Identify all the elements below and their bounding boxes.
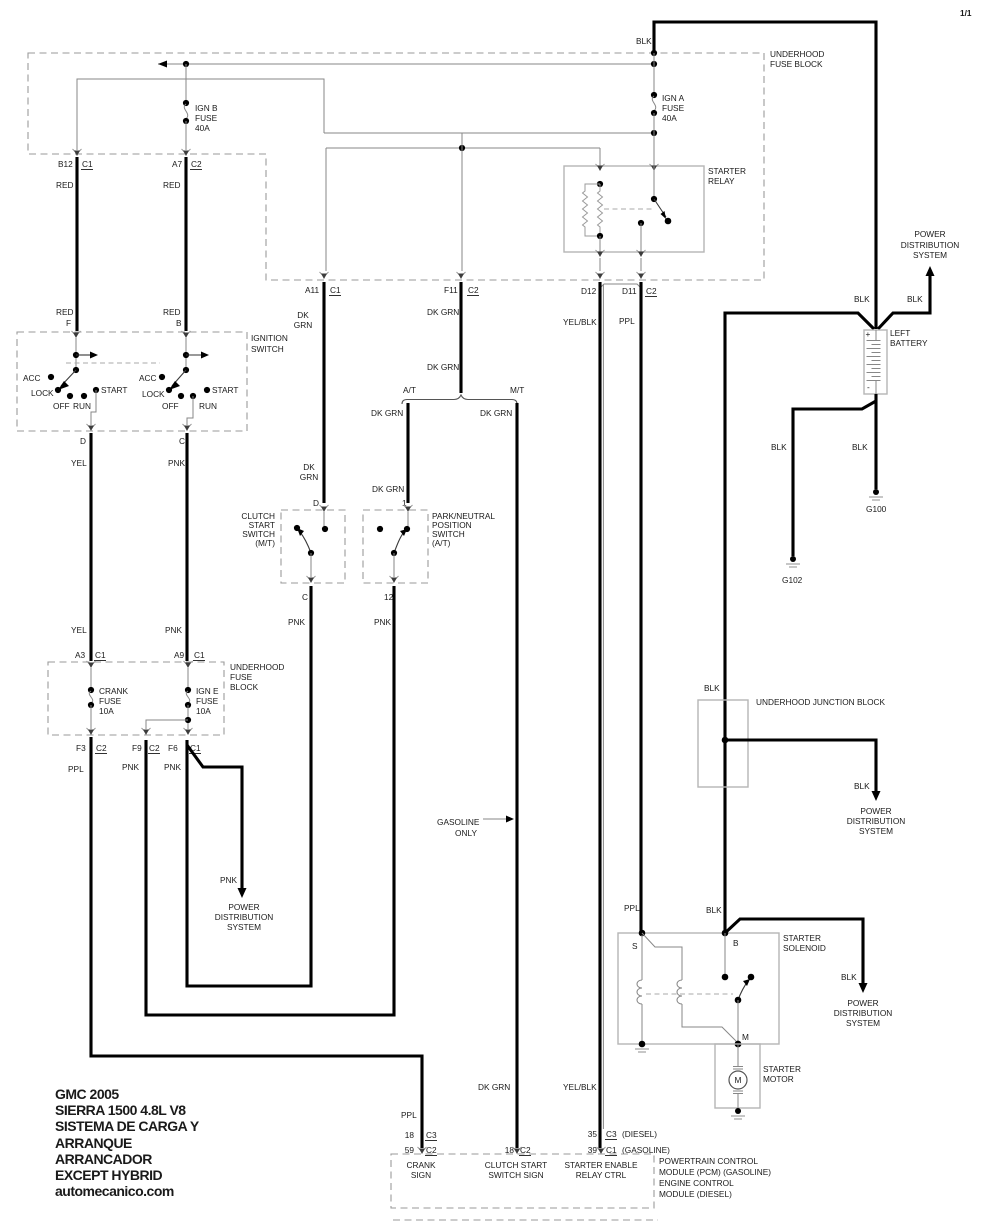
wire A11/relay feeder bus xyxy=(326,147,600,149)
svg-text:START: START xyxy=(101,385,127,395)
underhood fuse block lower label xyxy=(230,662,284,692)
ignition switch half 2 contacts xyxy=(139,373,238,411)
wire BLK junction-block riser to battery xyxy=(725,294,874,933)
svg-text:SYSTEM: SYSTEM xyxy=(846,1018,880,1028)
svg-text:S: S xyxy=(632,941,638,951)
underhood fuse block (lower) dashed box xyxy=(48,662,224,735)
terminal B12 C1 xyxy=(58,159,93,170)
relay switch common xyxy=(651,166,657,202)
svg-text:C2: C2 xyxy=(646,286,657,296)
wire DK GRN M/T branch to PCM xyxy=(480,403,517,1148)
svg-text:PNK: PNK xyxy=(164,762,182,772)
svg-text:RED: RED xyxy=(56,307,74,317)
wire bridge to B12 xyxy=(77,79,324,150)
svg-text:SYSTEM: SYSTEM xyxy=(859,826,893,836)
connector entry mark at 186,156 xyxy=(182,149,191,156)
svg-text:C1: C1 xyxy=(82,159,93,169)
wires relay to fuse block edge xyxy=(600,258,641,271)
svg-text:PPL: PPL xyxy=(624,903,640,913)
svg-text:PPL: PPL xyxy=(619,316,635,326)
ground solenoid case xyxy=(635,1041,649,1052)
fuse IGN A 40A xyxy=(651,92,685,123)
terminal A9 C1 xyxy=(174,650,205,661)
node F11 tap xyxy=(459,145,465,151)
starter motor box xyxy=(715,1044,760,1108)
wire A11 feed xyxy=(325,148,327,271)
terminal F3 C2 xyxy=(76,743,107,754)
wire BLK battery feed (top right) xyxy=(636,22,876,329)
connector entry mark at 324,512 xyxy=(320,505,329,512)
wire BLK battery negative to G102 xyxy=(771,401,876,556)
svg-text:B: B xyxy=(176,318,182,328)
svg-text:C: C xyxy=(302,592,308,602)
svg-text:RUN: RUN xyxy=(73,401,91,411)
connector entry mark at 641,257 xyxy=(637,250,646,257)
svg-text:ONLY: ONLY xyxy=(455,828,477,838)
svg-text:D12: D12 xyxy=(581,286,597,296)
svg-text:SOLENOID: SOLENOID xyxy=(783,943,826,953)
starter motor label xyxy=(763,1064,801,1084)
svg-text:YEL: YEL xyxy=(71,458,87,468)
fuse IGN E 10A xyxy=(185,668,219,729)
ignition switch label xyxy=(251,333,288,354)
svg-text:DK GRN: DK GRN xyxy=(478,1082,510,1092)
svg-text:G100: G100 xyxy=(866,504,887,514)
ignition switch half 2 output to C xyxy=(187,396,193,425)
wire PPL F3 to PCM crank sign xyxy=(91,737,422,1148)
svg-text:C1: C1 xyxy=(194,650,205,660)
ignition switch mechanical link xyxy=(66,362,160,364)
terminal 18 C3 / 59 C2 (crank sign) xyxy=(405,1130,437,1156)
svg-text:START: START xyxy=(212,385,238,395)
svg-text:YEL: YEL xyxy=(71,625,87,635)
connector entry mark at 188,668 xyxy=(184,661,193,668)
node junction block tap xyxy=(722,737,729,744)
wire PNK park/neutral 12 to F9 xyxy=(146,586,394,1015)
connector entry mark at 461,279 xyxy=(457,272,466,279)
svg-text:PPL: PPL xyxy=(401,1110,417,1120)
wire IGN B fuse to A7 xyxy=(185,121,187,150)
terminal A3 C1 xyxy=(75,650,106,661)
terminal 18 C2 (clutch start switch sign) xyxy=(505,1145,531,1156)
connector entry mark at 600,257 xyxy=(596,250,605,257)
svg-text:10A: 10A xyxy=(99,706,114,716)
terminal F11 C2 xyxy=(444,285,479,296)
wire IGN A feed xyxy=(653,53,655,94)
svg-text:IGN E: IGN E xyxy=(196,686,219,696)
clutch start switch dashed box xyxy=(281,510,345,583)
svg-text:SYSTEM: SYSTEM xyxy=(913,250,947,260)
svg-text:F3: F3 xyxy=(76,743,86,753)
connector entry mark at 311,583 xyxy=(307,576,316,583)
svg-text:FUSE BLOCK: FUSE BLOCK xyxy=(770,59,823,69)
connector entry mark at 600,279 xyxy=(596,272,605,279)
connector entry mark at 146,735 xyxy=(142,728,151,735)
svg-text:(A/T): (A/T) xyxy=(432,538,451,548)
relay switch blade xyxy=(654,199,671,224)
node junction IGN B tap xyxy=(183,61,189,67)
underhood fuse block (top) dashed outline xyxy=(28,53,764,280)
svg-text:PNK: PNK xyxy=(220,875,238,885)
svg-text:G102: G102 xyxy=(782,575,803,585)
connector entry mark at 394,583 xyxy=(390,576,399,583)
wire PNK clutch switch C to F6 xyxy=(187,586,311,986)
wire label PPL/PNK/PNK xyxy=(68,762,182,774)
svg-text:GRN: GRN xyxy=(294,320,312,330)
svg-text:M: M xyxy=(742,1032,749,1042)
solenoid switch contact from B xyxy=(722,933,729,980)
svg-text:FUSE: FUSE xyxy=(99,696,122,706)
svg-text:F9: F9 xyxy=(132,743,142,753)
wire relay coil feed xyxy=(599,148,601,166)
svg-text:POWER: POWER xyxy=(228,902,259,912)
wire DK GRN F11 to A/T-M/T split xyxy=(427,282,461,393)
svg-text:STARTER: STARTER xyxy=(783,933,821,943)
svg-text:(DIESEL): (DIESEL) xyxy=(622,1129,657,1139)
ground G100 xyxy=(866,489,887,514)
svg-text:C2: C2 xyxy=(149,743,160,753)
connector entry mark at 654,171 xyxy=(650,164,659,171)
node terminal B xyxy=(722,930,739,948)
terminal 35 C3 (DIESEL) / 39 C1 (GASOLINE) xyxy=(588,1129,670,1156)
node terminal M xyxy=(735,1032,749,1047)
svg-text:SWITCH SIGN: SWITCH SIGN xyxy=(488,1170,543,1180)
connector entry mark at 422,1154 xyxy=(418,1147,427,1154)
svg-text:YEL/BLK: YEL/BLK xyxy=(563,1082,597,1092)
svg-text:SIGN: SIGN xyxy=(411,1170,431,1180)
svg-text:BATTERY: BATTERY xyxy=(890,338,928,348)
svg-text:ARRANCADOR: ARRANCADOR xyxy=(55,1151,152,1167)
battery LEFT BATTERY xyxy=(864,328,928,394)
svg-text:STARTER: STARTER xyxy=(708,166,746,176)
terminal A7 C2 xyxy=(172,159,202,170)
svg-text:FUSE: FUSE xyxy=(662,103,685,113)
svg-text:BLK: BLK xyxy=(771,442,787,452)
node IGN A output xyxy=(651,130,657,136)
svg-text:RUN: RUN xyxy=(199,401,217,411)
svg-text:GRN: GRN xyxy=(300,472,318,482)
svg-text:A11: A11 xyxy=(305,285,320,295)
underhood junction block xyxy=(698,683,886,787)
svg-text:1/1: 1/1 xyxy=(960,8,972,18)
svg-text:CRANK: CRANK xyxy=(99,686,129,696)
connector entry mark at 77,156 xyxy=(73,149,82,156)
svg-text:DK: DK xyxy=(297,310,309,320)
wire BLK battery to power distribution (top right) xyxy=(878,229,959,329)
wire BLK solenoid B to power distribution xyxy=(725,919,892,1028)
terminal C / PNK xyxy=(288,592,308,627)
wire RED B12 to ignition switch F xyxy=(56,157,77,331)
svg-text:C3: C3 xyxy=(606,1129,617,1139)
node splice A/T-M/T xyxy=(402,385,524,404)
svg-text:CRANK: CRANK xyxy=(406,1160,436,1170)
svg-text:PNK: PNK xyxy=(122,762,140,772)
svg-text:SWITCH: SWITCH xyxy=(251,344,284,354)
svg-text:BLK: BLK xyxy=(854,294,870,304)
svg-text:PNK: PNK xyxy=(374,617,392,627)
svg-text:EXCEPT HYBRID: EXCEPT HYBRID xyxy=(55,1167,162,1183)
connector entry mark at 641,279 xyxy=(637,272,646,279)
ignition switch dashed box xyxy=(17,332,247,431)
svg-text:LOCK: LOCK xyxy=(31,388,54,398)
terminal D11 C2 xyxy=(622,286,657,297)
ignition switch half 2 feed xyxy=(183,338,209,373)
svg-text:UNDERHOOD: UNDERHOOD xyxy=(770,49,824,59)
svg-text:DK GRN: DK GRN xyxy=(427,362,459,372)
svg-text:FUSE: FUSE xyxy=(196,696,219,706)
svg-text:YEL/BLK: YEL/BLK xyxy=(563,317,597,327)
svg-text:F11: F11 xyxy=(444,285,458,295)
svg-text:DISTRIBUTION: DISTRIBUTION xyxy=(847,816,906,826)
ignition switch half 1 output to D xyxy=(91,390,96,425)
park/neutral switch blade xyxy=(391,529,407,577)
svg-text:RELAY: RELAY xyxy=(708,176,735,186)
svg-text:GMC 2005: GMC 2005 xyxy=(55,1086,119,1102)
wire YEL ignition D to fuse block A3 xyxy=(71,433,91,661)
relay mechanical link dashed xyxy=(604,208,652,210)
svg-text:BLK: BLK xyxy=(636,36,652,46)
svg-text:35: 35 xyxy=(588,1129,598,1139)
wire IGN A fuse to relay xyxy=(653,113,655,166)
svg-text:POWER: POWER xyxy=(914,229,945,239)
park/neutral switch contacts xyxy=(377,512,410,532)
connector entry mark at 601,1154 xyxy=(597,1147,606,1154)
svg-text:D: D xyxy=(80,436,86,446)
svg-text:DISTRIBUTION: DISTRIBUTION xyxy=(834,1008,893,1018)
connector entry mark at 187,431 xyxy=(183,424,192,431)
wire DK GRN A/T branch xyxy=(371,403,408,508)
wire BLK junction block to power distribution xyxy=(725,740,905,836)
connector entry mark at 91,668 xyxy=(87,661,96,668)
ignition switch half 1 contacts xyxy=(23,373,127,411)
park/neutral position switch dashed box xyxy=(363,510,428,583)
pcm lower dashed edge xyxy=(393,1219,658,1221)
wire F11 feed xyxy=(461,133,463,271)
svg-text:OFF: OFF xyxy=(162,401,179,411)
svg-text:IGN A: IGN A xyxy=(662,93,685,103)
ignition switch half 1 feed xyxy=(73,338,98,373)
svg-text:PNK: PNK xyxy=(288,617,306,627)
connector entry mark at 91,431 xyxy=(87,424,96,431)
fuse IGN B 40A xyxy=(183,100,218,133)
wire labels above PCM xyxy=(478,1082,510,1092)
ignition switch half 2 blade xyxy=(169,370,186,390)
node IGN E output split xyxy=(185,717,191,723)
svg-text:12: 12 xyxy=(384,592,394,602)
svg-text:A7: A7 xyxy=(172,159,183,169)
svg-text:BLOCK: BLOCK xyxy=(230,682,259,692)
svg-text:B12: B12 xyxy=(58,159,73,169)
solenoid mechanical link dashed xyxy=(646,993,733,995)
svg-text:A/T: A/T xyxy=(403,385,416,395)
svg-text:BLK: BLK xyxy=(706,905,722,915)
connector entry mark at 324,279 xyxy=(320,272,329,279)
svg-text:A9: A9 xyxy=(174,650,185,660)
svg-text:C2: C2 xyxy=(191,159,202,169)
svg-text:DISTRIBUTION: DISTRIBUTION xyxy=(901,240,960,250)
svg-text:RED: RED xyxy=(163,307,181,317)
starter solenoid box xyxy=(618,933,779,1044)
svg-text:DK: DK xyxy=(303,462,315,472)
solenoid pull-in coil feed xyxy=(642,933,682,980)
connector entry mark at 517,1154 xyxy=(513,1147,522,1154)
terminal F9 C2 xyxy=(132,743,160,754)
node junction IGN A tap xyxy=(651,61,657,67)
connector entry mark at 186,338 xyxy=(182,331,191,338)
title block xyxy=(55,1086,200,1199)
svg-text:IGN B: IGN B xyxy=(195,103,218,113)
svg-text:IGNITION: IGNITION xyxy=(251,333,288,343)
starter relay label xyxy=(708,166,746,186)
svg-text:BLK: BLK xyxy=(841,972,857,982)
svg-text:PPL: PPL xyxy=(68,764,84,774)
svg-text:POWER: POWER xyxy=(847,998,878,1008)
svg-text:LOCK: LOCK xyxy=(142,389,165,399)
svg-text:BLK: BLK xyxy=(704,683,720,693)
connector entry mark at 91,735 xyxy=(87,728,96,735)
wire RED A7 to ignition switch B xyxy=(163,157,186,331)
svg-text:MOTOR: MOTOR xyxy=(763,1074,794,1084)
ignition switch half 1 blade xyxy=(58,370,76,390)
svg-text:40A: 40A xyxy=(195,123,210,133)
svg-text:(M/T): (M/T) xyxy=(255,538,275,548)
wire internal bus to page-left arrow xyxy=(158,61,654,68)
wire IGN B feed xyxy=(185,64,187,102)
svg-text:F: F xyxy=(66,318,71,328)
clutch start switch blade xyxy=(297,528,314,577)
wire PNK ignition C to fuse block A9 xyxy=(165,433,187,661)
powertrain control module dashed box xyxy=(391,1154,654,1208)
relay output contact D11 xyxy=(638,220,644,252)
svg-text:PNK: PNK xyxy=(165,625,183,635)
starter relay box xyxy=(564,166,704,252)
connector entry mark at 76,338 xyxy=(72,331,81,338)
wire PNK F6 to power distribution xyxy=(187,745,273,932)
svg-text:ACC: ACC xyxy=(23,373,41,383)
wire PPL D11 to solenoid S xyxy=(619,282,641,931)
svg-text:POWER: POWER xyxy=(860,806,891,816)
clutch start switch contacts xyxy=(294,512,328,532)
svg-text:C2: C2 xyxy=(468,285,479,295)
svg-text:STARTER ENABLE: STARTER ENABLE xyxy=(564,1160,637,1170)
svg-text:18: 18 xyxy=(405,1130,415,1140)
svg-text:GASOLINE: GASOLINE xyxy=(437,817,480,827)
relay coil output D12 xyxy=(599,236,601,252)
svg-text:ACC: ACC xyxy=(139,373,157,383)
svg-text:M: M xyxy=(735,1075,742,1085)
svg-text:UNDERHOOD JUNCTION BLOCK: UNDERHOOD JUNCTION BLOCK xyxy=(756,697,886,707)
starter motor symbol xyxy=(729,1044,747,1108)
starter solenoid label xyxy=(783,933,826,953)
svg-text:BLK: BLK xyxy=(854,781,870,791)
svg-text:LEFT: LEFT xyxy=(890,328,910,338)
wire IGN E to F9 xyxy=(146,720,188,729)
svg-text:M/T: M/T xyxy=(510,385,524,395)
terminal 12 / PNK xyxy=(374,592,394,627)
svg-text:DK GRN: DK GRN xyxy=(372,484,404,494)
svg-text:DK GRN: DK GRN xyxy=(480,408,512,418)
svg-text:MODULE (PCM) (GASOLINE): MODULE (PCM) (GASOLINE) xyxy=(659,1167,771,1177)
svg-text:10A: 10A xyxy=(196,706,211,716)
svg-text:DK GRN: DK GRN xyxy=(371,408,403,418)
svg-text:DISTRIBUTION: DISTRIBUTION xyxy=(215,912,274,922)
fuse CRANK 10A xyxy=(88,668,129,729)
gasoline only note xyxy=(437,816,514,839)
svg-text:C3: C3 xyxy=(426,1130,437,1140)
connector entry mark at 600,171 xyxy=(596,164,605,171)
svg-text:C1: C1 xyxy=(330,285,341,295)
svg-text:C2: C2 xyxy=(96,743,107,753)
svg-text:FUSE: FUSE xyxy=(230,672,253,682)
connector entry mark at 188,735 xyxy=(184,728,193,735)
svg-text:ARRANQUE: ARRANQUE xyxy=(55,1135,132,1151)
svg-text:CLUTCH START: CLUTCH START xyxy=(485,1160,547,1170)
svg-text:SYSTEM: SYSTEM xyxy=(227,922,261,932)
svg-text:FUSE: FUSE xyxy=(195,113,218,123)
svg-text:UNDERHOOD: UNDERHOOD xyxy=(230,662,284,672)
svg-text:40A: 40A xyxy=(662,113,677,123)
svg-text:C1: C1 xyxy=(95,650,106,660)
ground starter motor xyxy=(731,1108,745,1119)
svg-text:STARTER: STARTER xyxy=(763,1064,801,1074)
svg-text:D: D xyxy=(313,498,319,508)
svg-text:BLK: BLK xyxy=(907,294,923,304)
svg-text:ENGINE CONTROL: ENGINE CONTROL xyxy=(659,1178,734,1188)
svg-text:MODULE (DIESEL): MODULE (DIESEL) xyxy=(659,1189,732,1199)
svg-text:C: C xyxy=(179,436,185,446)
underhood fuse block label xyxy=(770,49,824,69)
svg-text:DK GRN: DK GRN xyxy=(427,307,459,317)
connector entry mark at 408,512 xyxy=(404,505,413,512)
ground G102 xyxy=(782,556,803,585)
svg-text:A3: A3 xyxy=(75,650,86,660)
wire IGN A output cross bus xyxy=(324,132,654,134)
terminal A11 C1 xyxy=(305,285,341,296)
svg-text:automecanico.com: automecanico.com xyxy=(55,1183,174,1199)
solenoid switch blade xyxy=(735,974,755,1042)
svg-text:RED: RED xyxy=(163,180,181,190)
svg-text:SISTEMA DE CARGA Y: SISTEMA DE CARGA Y xyxy=(55,1118,200,1134)
wire DK GRN A11 to clutch start switch D xyxy=(294,282,324,508)
park/neutral position switch label xyxy=(432,511,495,548)
node terminal S xyxy=(632,930,645,951)
node BLK at fuse block border xyxy=(651,50,657,56)
svg-text:OFF: OFF xyxy=(53,401,70,411)
svg-text:RED: RED xyxy=(56,180,74,190)
svg-text:+: + xyxy=(866,329,871,339)
connector bracket D12-D11 xyxy=(600,284,641,288)
pcm module label xyxy=(659,1156,771,1199)
svg-text:D11: D11 xyxy=(622,286,637,296)
svg-text:B: B xyxy=(733,938,739,948)
svg-text:SIERRA 1500 4.8L V8: SIERRA 1500 4.8L V8 xyxy=(55,1102,186,1118)
svg-text:POWERTRAIN CONTROL: POWERTRAIN CONTROL xyxy=(659,1156,758,1166)
solenoid hold-in coil xyxy=(637,935,642,1042)
solenoid pull-in coil xyxy=(677,980,736,1041)
svg-text:PNK: PNK xyxy=(168,458,186,468)
svg-text:BLK: BLK xyxy=(852,442,868,452)
wire YEL/BLK D12 to PCM xyxy=(563,282,603,1148)
pcm pin function labels xyxy=(406,1160,637,1180)
terminal F6 C1 xyxy=(168,743,201,754)
wire BLK battery negative to G100 xyxy=(852,394,876,489)
relay coil (with parallel resistor) xyxy=(583,181,604,239)
svg-text:RELAY CTRL: RELAY CTRL xyxy=(576,1170,627,1180)
clutch start switch label xyxy=(241,511,275,548)
svg-text:F6: F6 xyxy=(168,743,178,753)
svg-text:-: - xyxy=(867,382,870,392)
